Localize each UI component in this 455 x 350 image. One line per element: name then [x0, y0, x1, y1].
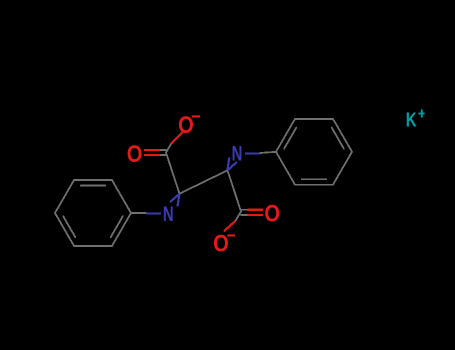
svg-text:N: N: [163, 203, 174, 226]
svg-text:O: O: [213, 230, 229, 257]
svg-text:N: N: [232, 142, 243, 165]
svg-text:O: O: [264, 200, 280, 227]
svg-text:O: O: [127, 140, 143, 167]
svg-text:O: O: [178, 111, 194, 138]
svg-text:K: K: [406, 108, 417, 131]
